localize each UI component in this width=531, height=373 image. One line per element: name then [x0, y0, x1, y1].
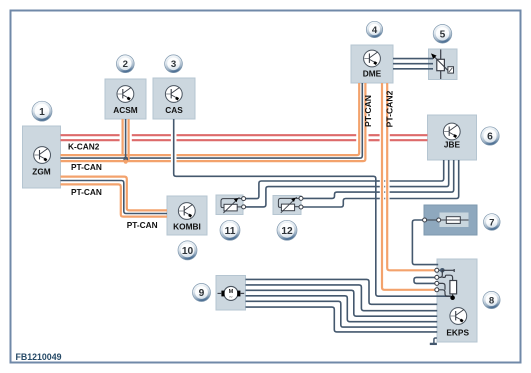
svg-text:CAS: CAS: [165, 105, 183, 115]
DME module symbol: [364, 50, 381, 67]
wire JBE line 4 to sensor 12 lower pin: [301, 199, 375, 208]
ground symbol below EKPS: [434, 338, 437, 344]
badge 11: [220, 220, 240, 240]
svg-text:PT-CAN: PT-CAN: [127, 220, 158, 230]
wires fuel pump 9 to EKPS: [246, 279, 438, 304]
badge 1: [32, 101, 52, 121]
svg-text:9: 9: [199, 288, 205, 299]
badge 4: [366, 21, 382, 37]
svg-text:6: 6: [487, 132, 493, 143]
sensor box 5: [429, 49, 458, 80]
svg-text:8: 8: [489, 295, 495, 306]
control unit KOMBI (10): [167, 196, 207, 235]
control unit CAS (3): [153, 78, 195, 119]
wire PT-CAN ZGM to KOMBI : orange bottom: [61, 184, 168, 216]
control unit DME (4): [351, 45, 393, 83]
ACSM module symbol: [117, 86, 134, 103]
svg-text:4: 4: [372, 25, 378, 36]
badge 2: [116, 55, 134, 73]
svg-text:PT-CAN: PT-CAN: [71, 162, 102, 172]
wire PT-CAN ZGM to KOMBI : dark middle: [61, 181, 168, 214]
wire PT-CAN bus ZGM to DME : orange top: [61, 154, 171, 156]
wires DME to sensor 5: [393, 58, 433, 60]
svg-text:KOMBI: KOMBI: [173, 221, 201, 231]
badge 12: [277, 220, 297, 240]
sensor box 12: [273, 196, 301, 215]
svg-text:ACSM: ACSM: [113, 105, 138, 115]
control unit EKPS (8): [437, 259, 477, 342]
svg-text:3: 3: [171, 59, 176, 70]
svg-text:PT-CAN: PT-CAN: [71, 187, 102, 197]
wire PT-CAN ZGM to KOMBI : orange top: [61, 177, 168, 211]
fuse box 7: [424, 205, 477, 235]
EKPS internal circuit: [437, 269, 443, 271]
ZGM module symbol: [34, 147, 51, 164]
control unit JBE (6): [428, 115, 477, 160]
sensor 5 symbol (temperature sensor): [440, 50, 442, 80]
wire jumper loop EKPS pins 2-3: [414, 277, 436, 283]
KOMBI module symbol: [178, 203, 195, 220]
fuel pump motor symbol box 9: [218, 292, 222, 294]
fuse element in box 7: [446, 217, 460, 224]
sensor 12 symbol (variable resistor): [278, 198, 300, 207]
control unit ZGM (1): [23, 126, 61, 188]
svg-text:PT-CAN: PT-CAN: [363, 95, 373, 127]
svg-text:JBE: JBE: [444, 140, 461, 150]
wire JBE line 2 to sensor 11 lower pin: [244, 187, 375, 207]
badge 9: [193, 284, 211, 302]
svg-text:K-CAN2: K-CAN2: [68, 142, 100, 152]
wire JBE line 3 to sensor 12 upper pin: [301, 192, 375, 198]
wire PT-CAN bus ZGM to DME : dark middle: [61, 157, 171, 159]
wire PT-CAN2 orange left DME to EKPS pin4: [382, 83, 435, 290]
EKPS module symbol: [450, 308, 467, 325]
badge 6: [481, 127, 499, 145]
sensor box 11: [216, 195, 243, 215]
EKPS pin circles: [435, 268, 439, 272]
CAS module symbol: [165, 86, 182, 103]
svg-text:2: 2: [123, 59, 128, 70]
badge 8: [483, 291, 500, 308]
wire PT-CAN bus ZGM to DME : orange bottom: [61, 160, 171, 162]
svg-text:FB1210049: FB1210049: [16, 352, 62, 362]
sensor 11 symbol (variable resistor): [221, 199, 243, 208]
svg-text:1: 1: [39, 107, 45, 118]
badge 10: [178, 241, 197, 260]
wire PT-CAN2 orange right DME to EKPS pin1: [387, 83, 435, 270]
badge 7: [484, 214, 501, 231]
svg-text:EKPS: EKPS: [446, 328, 469, 338]
fuel pump motor box 9: [216, 276, 246, 311]
JBE module symbol: [443, 123, 460, 140]
junction dot dark on PT-CAN: [123, 157, 128, 162]
svg-text:10: 10: [182, 246, 194, 257]
wire ACSM stub to PT-CAN bus: [121, 119, 123, 155]
wire K-CAN2 red pair ZGM to JBE: [61, 134, 120, 136]
wire fuse box 7 to EKPS: [412, 220, 438, 265]
wire CAS to EKPS: [174, 119, 451, 296]
svg-text:5: 5: [440, 29, 446, 40]
badge 5: [433, 25, 452, 44]
svg-text:∼: ∼: [229, 295, 233, 301]
wire JBE line 1 to sensor 11 upper pin: [244, 181, 375, 199]
svg-text:PT-CAN2: PT-CAN2: [384, 90, 394, 127]
pin circles sensor 12: [299, 196, 303, 200]
svg-text:DME: DME: [363, 69, 382, 79]
pin circles sensor 11: [242, 197, 246, 201]
svg-text:11: 11: [225, 226, 236, 237]
junction dot orange on PT-CAN: [124, 160, 128, 164]
control unit ACSM (2): [105, 79, 146, 119]
svg-text:ZGM: ZGM: [32, 167, 51, 177]
svg-text:12: 12: [281, 226, 293, 237]
pin circles box 7: [423, 218, 427, 222]
badge 3: [165, 55, 183, 73]
svg-text:7: 7: [489, 217, 494, 228]
